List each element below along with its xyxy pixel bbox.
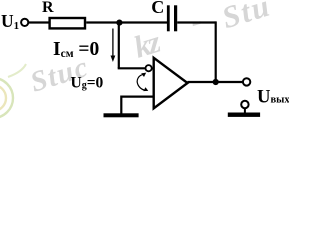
wire inverting input horizontal bbox=[118, 67, 146, 69]
output terminal bbox=[243, 78, 250, 85]
ground (output reference) bbox=[228, 113, 260, 117]
node A (summing junction dot) bbox=[116, 20, 122, 26]
op-amp triangle bbox=[154, 58, 188, 109]
svg-text:C: C bbox=[151, 0, 164, 17]
wire terminal to ground bbox=[244, 108, 246, 113]
current arrow Icm bbox=[111, 29, 116, 63]
wire input to resistor bbox=[28, 21, 48, 23]
node B (output junction dot) bbox=[213, 79, 219, 85]
wire feedback vertical bbox=[215, 21, 217, 82]
input terminal bbox=[21, 19, 28, 26]
wire op-amp output bbox=[188, 81, 244, 83]
svg-text:Iсм =0: Iсм =0 bbox=[53, 39, 99, 60]
wire resistor to capacitor bbox=[86, 21, 167, 23]
inverting input bubble bbox=[146, 65, 152, 71]
curved arrow Ud between inputs bbox=[137, 73, 148, 92]
svg-text:R: R bbox=[42, 0, 54, 16]
wire inverting input vertical bbox=[118, 23, 120, 69]
wire non-inverting to ground bbox=[120, 96, 122, 114]
wire capacitor to right corner bbox=[177, 21, 216, 23]
svg-text:Ug=0: Ug=0 bbox=[71, 75, 104, 92]
capacitor C bbox=[168, 5, 175, 31]
ground terminal circle bbox=[241, 101, 248, 108]
wire non-inverting input bbox=[121, 95, 153, 97]
resistor R bbox=[50, 18, 85, 28]
ground (non-inverting input) bbox=[104, 113, 139, 117]
